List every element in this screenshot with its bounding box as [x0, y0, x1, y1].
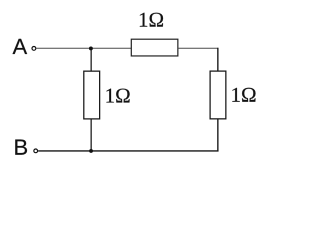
junction dot (bottom node)	[89, 149, 93, 153]
wire R2 to top-right corner	[178, 47, 219, 49]
wire top junction to R2	[91, 47, 131, 49]
label 1Ω (middle resistor value)	[106, 89, 129, 103]
terminal B	[34, 149, 38, 153]
resistor R3 (right vertical)	[210, 71, 226, 119]
wire B to bottom junction	[38, 150, 91, 152]
label 1Ω (right resistor value)	[232, 88, 255, 102]
node B label	[15, 140, 27, 155]
wire middle branch: top junction to R1	[90, 48, 92, 71]
wire bottom junction to bottom-right corner	[91, 150, 218, 152]
node A label	[13, 39, 28, 54]
wire A to top junction	[36, 47, 91, 49]
wire top-right corner down to R3	[217, 48, 219, 71]
resistor R2 (top horizontal)	[131, 39, 178, 56]
label 1Ω (top resistor value)	[140, 13, 163, 27]
resistor R1 (middle vertical)	[84, 71, 100, 119]
wire middle branch: R1 to bottom junction	[90, 119, 92, 151]
wire R3 down to bottom-right corner	[217, 119, 219, 152]
junction dot (top node)	[89, 46, 93, 50]
terminal A	[32, 47, 36, 51]
